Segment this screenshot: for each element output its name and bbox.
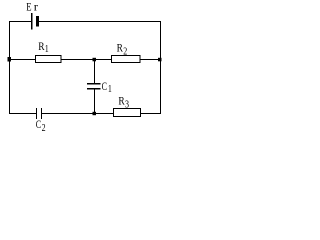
label R2 [117,40,128,57]
wire: middle segment from R2 to right wire [140,59,161,61]
label C1 [102,79,112,95]
battery E r [31,13,39,30]
wire: left vertical wire [9,21,11,114]
wire: top left segment from left corner to battery [9,21,31,23]
wire: bottom segment from R3 to bottom-right corner [141,113,161,115]
wire: C1 lower lead [94,89,96,114]
svg-text:R: R [38,39,44,53]
label R3 [118,93,129,110]
svg-text:R: R [118,93,124,107]
wire: bottom segment between C2 and R3 [42,113,113,115]
svg-text:1: 1 [108,84,112,95]
resistor R1 [36,56,62,63]
wire: C1 upper lead [94,59,96,84]
wire: middle branch left segment [9,59,35,61]
wire: bottom left segment from corner to C2 [9,113,36,115]
svg-text:1: 1 [45,44,49,55]
wire: right vertical wire [160,21,162,114]
wire: top segment from battery to top-right corner [39,21,161,23]
capacitor C2 [37,108,42,119]
label R1 [38,39,49,55]
svg-text:r: r [34,0,38,14]
resistor R2 [112,56,141,63]
label C2 [36,117,46,134]
svg-text:C: C [102,79,107,93]
node: junction dot at right wire [158,58,162,62]
svg-text:E: E [26,0,31,14]
wire: middle segment between R1 and R2 [61,59,111,61]
node: junction dot left of middle branch [8,57,12,62]
label E r [26,0,38,14]
resistor R3 [114,109,141,117]
node: junction dot at top of C1 branch [93,58,97,62]
svg-text:R: R [117,40,123,54]
svg-text:2: 2 [42,123,46,133]
node: junction dot at bottom of C1 branch [93,112,97,115]
capacitor C1 [87,84,101,89]
svg-text:3: 3 [125,100,129,111]
svg-text:C: C [36,117,41,131]
svg-text:2: 2 [123,47,127,58]
